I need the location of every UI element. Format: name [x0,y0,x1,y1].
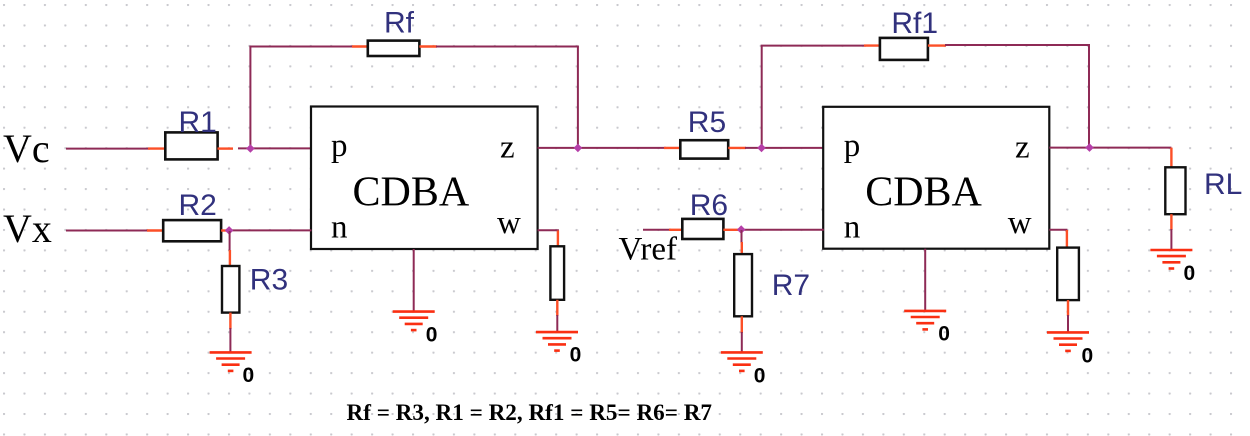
label 0 R3 ground [243,364,255,387]
wire J3 down [229,231,231,251]
wire R1 left lead [148,147,166,149]
svg-text:p: p [331,128,348,164]
wire top to Rf1 [761,45,866,47]
svg-text:p: p [844,128,861,164]
svg-text:w: w [497,205,521,241]
ground CDBA2 [904,311,946,330]
wire riser down to z2 [1088,45,1090,148]
svg-text:0: 0 [754,364,766,387]
wire Rw2 to ground [1067,315,1069,333]
label R1 [179,106,217,139]
svg-text:Vx: Vx [3,206,52,251]
wire CDBA2 ground stem [924,249,926,311]
resistor R7 [734,254,752,316]
label R5 [688,106,726,139]
wire R3 top lead [229,250,231,267]
wire RL bottom lead [1170,214,1172,230]
resistor R6 [682,219,723,239]
ground Rw2 [1047,332,1089,351]
label R6 [690,189,728,222]
label 0 RL ground [1184,262,1196,285]
label 0 R7 ground [754,364,766,387]
wire R2 left lead [147,229,164,231]
resistor Rw2 [1057,248,1079,301]
op-amp U1 CDBA [311,107,538,250]
wire R7 top lead [741,242,743,255]
wire R7 to ground [741,332,743,353]
svg-text:R2: R2 [179,189,217,222]
wire Rf1 left lead [864,44,881,46]
wire Rf1 right lead [928,44,946,46]
wire riser down to z [577,47,579,149]
wire R5 right lead [728,147,746,149]
svg-text:0: 0 [1184,262,1196,285]
wire Rf left lead [352,45,369,47]
node junction J1 [246,144,255,153]
wire Vc to R1 [66,148,150,150]
label 0 Rw1 ground [570,344,582,367]
node Vc [3,126,50,171]
wire CDBA2 w out [1049,230,1066,232]
ground R7 [721,352,763,371]
label RL [1204,168,1242,201]
wire R5 to CDBA2 p [745,147,824,149]
svg-text:R6: R6 [690,189,728,222]
label 0 Rw2 ground [1082,344,1094,367]
wire Rw2 top lead [1066,230,1068,249]
svg-text:Vref: Vref [619,232,677,268]
resistor R5 [680,140,728,158]
wire R3 bottom lead [229,313,231,329]
op-amp U2 CDBA [823,107,1049,249]
wire Vx to R2 [66,230,150,232]
ground CDBA1 [393,312,435,331]
node junction J3 [225,226,234,235]
svg-text:Vc: Vc [3,126,50,171]
resistor Rf [368,41,420,56]
svg-text:n: n [331,210,348,246]
node Vx [3,206,52,251]
wire Rw1 to ground [556,315,558,332]
wire RL to ground [1170,229,1172,250]
wire Vref to R6 [643,229,671,231]
svg-text:Rf1: Rf1 [891,7,938,40]
wire RL top lead [1170,148,1172,169]
svg-text:R7: R7 [772,269,810,302]
wire z2 to RL [1049,147,1171,149]
wire R1 to CDBA1 p [238,147,312,149]
wire R2 to CDBA1 n [229,229,312,231]
label R7 [772,269,810,302]
svg-text:R5: R5 [688,106,726,139]
svg-text:0: 0 [426,323,438,346]
wire Rf1 to z2 riser [945,44,1090,46]
wire Rw2 bottom lead [1067,300,1069,316]
wire top to Rf [249,46,354,48]
wire R7 bottom lead [741,316,743,333]
wire R6 right lead [723,229,738,231]
svg-text:w: w [1008,205,1032,241]
node junction J2 z1 [574,144,583,153]
svg-text:z: z [500,130,515,166]
label R2 [179,189,217,222]
wire R6 left lead [669,229,683,231]
wire riser to Rf [249,47,251,149]
wire CDBA1 w out [538,230,558,232]
label 0 CDBA1 ground [426,323,438,346]
svg-text:Rf = R3, R1 = R2, Rf1 = R5= R6: Rf = R3, R1 = R2, Rf1 = R5= R6= R7 [347,400,713,426]
resistor Rf1 [880,38,928,60]
wire R2 right lead [221,229,229,231]
ground R3 [210,352,252,371]
svg-text:z: z [1015,130,1030,166]
wire R1 right lead [218,147,234,149]
svg-text:0: 0 [938,323,950,346]
node junction J5 z2 [1085,143,1094,152]
node junction J4 [757,144,766,153]
wire riser to Rf1 [761,46,763,148]
svg-text:n: n [844,210,861,246]
label R3 [250,263,288,296]
svg-text:Rf: Rf [384,7,415,40]
wire R3 to ground [229,328,231,352]
svg-text:R3: R3 [250,263,288,296]
wire Rw1 top lead [557,231,559,248]
resistor R3 [222,266,239,313]
svg-text:CDBA: CDBA [865,170,982,216]
wire Rf to z riser [436,46,579,48]
wire CDBA1 ground stem [413,249,415,312]
svg-text:0: 0 [1082,344,1094,367]
wire Rw1 bottom lead [556,300,558,316]
wire R6 to CDBA2 n [738,229,824,231]
ground RL [1150,250,1192,269]
svg-text:0: 0 [243,364,255,387]
wire J6 down [741,230,743,243]
label Rf [384,7,415,40]
node Vref [619,232,677,268]
wire R5 left lead [664,147,681,149]
svg-text:CDBA: CDBA [353,170,470,216]
label Rf1 [891,7,938,40]
node junction J6 [737,225,746,234]
wire Rf right lead [419,45,437,47]
resistor RL [1165,167,1185,214]
svg-text:RL: RL [1204,168,1242,201]
ground Rw1 [536,332,578,351]
wire z1 to R5 [538,147,666,149]
svg-text:0: 0 [570,344,582,367]
resistor R1 [165,132,217,159]
resistor R2 [163,220,221,241]
svg-text:R1: R1 [179,106,217,139]
resistor Rw1 [550,246,564,299]
label equation [347,400,713,426]
label 0 CDBA2 ground [938,323,950,346]
